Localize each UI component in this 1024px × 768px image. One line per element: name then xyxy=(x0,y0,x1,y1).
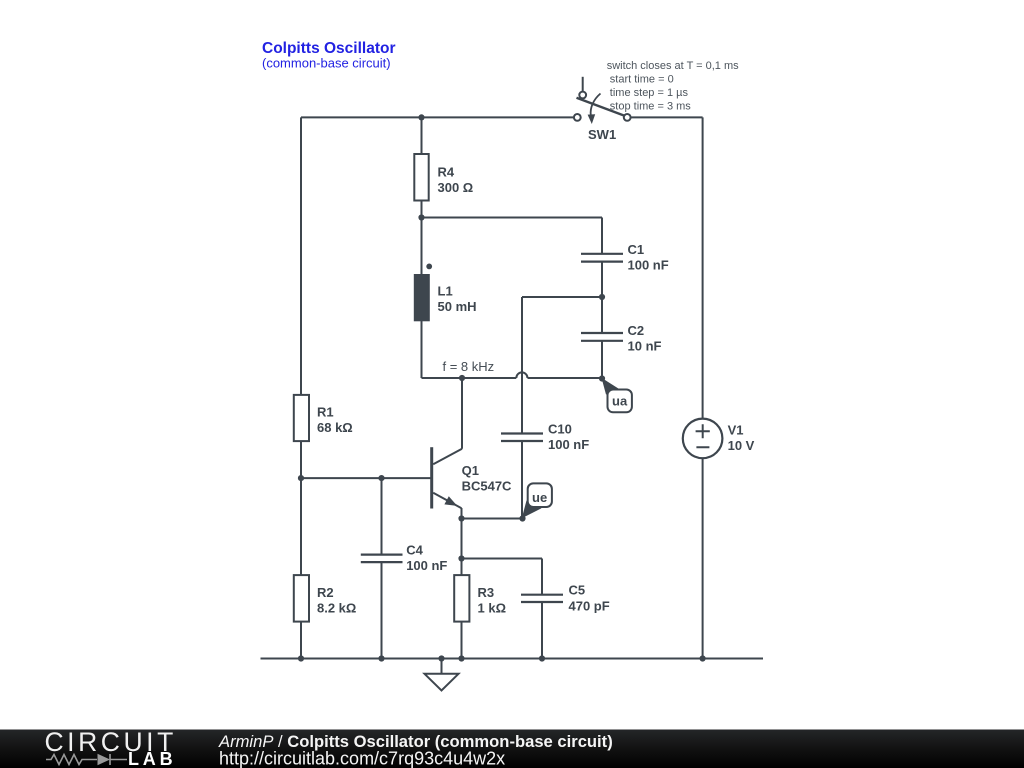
node ue flag xyxy=(522,483,552,518)
svg-text:LAB: LAB xyxy=(128,749,176,768)
junction ground rail R2 xyxy=(298,655,304,661)
junction ground rail C4 xyxy=(378,655,384,661)
svg-text:(common-base circuit): (common-base circuit) xyxy=(262,56,391,71)
svg-text:C2: C2 xyxy=(628,323,645,338)
svg-text:time step = 1 µs: time step = 1 µs xyxy=(610,87,689,99)
svg-text:C10: C10 xyxy=(548,421,572,436)
inductor L1 xyxy=(414,264,477,322)
voltage source V1 xyxy=(683,419,755,459)
capacitor C5 xyxy=(521,595,563,602)
junction R4 / C1 row xyxy=(418,214,424,220)
wire hop arc xyxy=(516,372,527,378)
junction ground rail R3 xyxy=(458,655,464,661)
svg-text:Colpitts Oscillator: Colpitts Oscillator xyxy=(262,40,396,57)
wire top rail left xyxy=(301,116,574,118)
svg-text:R1: R1 xyxy=(317,404,334,419)
svg-text:C1: C1 xyxy=(628,242,645,257)
svg-text:ue: ue xyxy=(532,490,547,505)
wire C5 column xyxy=(541,559,543,659)
ground xyxy=(425,674,459,691)
svg-text:start time = 0: start time = 0 xyxy=(610,74,674,86)
junction base row left rail xyxy=(298,475,304,481)
svg-text:8.2 kΩ: 8.2 kΩ xyxy=(317,601,356,616)
wire emitter row xyxy=(462,518,523,520)
svg-text:ua: ua xyxy=(612,393,628,408)
wire top rail right xyxy=(631,116,703,118)
junction ground rail ground symbol xyxy=(438,655,444,661)
wire left rail xyxy=(300,117,302,658)
wire C10 column xyxy=(521,297,523,519)
annotation notes xyxy=(607,60,739,112)
resistor R3 xyxy=(454,575,506,622)
junction C1-C2 midpoint xyxy=(599,294,605,300)
capacitor C2 xyxy=(581,333,623,341)
capacitor C10 xyxy=(501,434,543,442)
svg-text:470 pF: 470 pF xyxy=(569,598,610,613)
capacitor C4 xyxy=(361,555,403,563)
resistor R2 xyxy=(294,575,357,622)
svg-text:switch closes at T = 0,1 ms: switch closes at T = 0,1 ms xyxy=(607,60,739,72)
svg-text:R2: R2 xyxy=(317,585,334,600)
svg-text:C4: C4 xyxy=(406,543,423,558)
wire R3-C5 row xyxy=(462,558,543,560)
svg-text:50 mH: 50 mH xyxy=(438,299,477,314)
wire C2 stubs xyxy=(601,297,603,379)
svg-text:100 nF: 100 nF xyxy=(406,558,447,573)
footer bar xyxy=(0,730,1024,768)
wire ground stub xyxy=(441,659,443,675)
svg-text:f = 8 kHz: f = 8 kHz xyxy=(443,359,495,374)
svg-text:10 V: 10 V xyxy=(728,438,755,453)
svg-text:stop time = 3 ms: stop time = 3 ms xyxy=(610,100,692,112)
wire R3 column xyxy=(461,519,463,659)
wire C1-C2 midpoint row xyxy=(522,296,602,298)
wire C1 top stub xyxy=(601,218,603,254)
switch SW1 xyxy=(574,77,631,142)
wire collector stub xyxy=(461,378,463,449)
resistor R1 xyxy=(294,395,353,441)
junction emitter xyxy=(458,515,464,521)
svg-text:100 nF: 100 nF xyxy=(548,437,589,452)
junction top rail / R4 xyxy=(418,114,424,120)
wire R4-L1 column xyxy=(421,117,423,378)
junction R3 / C5 row xyxy=(458,555,464,561)
junction ground rail V1 xyxy=(700,655,706,661)
svg-text:68 kΩ: 68 kΩ xyxy=(317,420,353,435)
junction base row C4 xyxy=(378,475,384,481)
svg-text:Q1: Q1 xyxy=(462,463,479,478)
transistor Q1 xyxy=(432,447,512,508)
junction collector row xyxy=(459,375,465,381)
wire C4 column xyxy=(381,478,383,658)
svg-text:1 kΩ: 1 kΩ xyxy=(478,601,507,616)
wire emitter stub xyxy=(461,508,463,519)
node ua flag xyxy=(602,378,632,413)
svg-text:V1: V1 xyxy=(728,422,744,437)
wire node B row xyxy=(422,217,603,219)
svg-text:R3: R3 xyxy=(478,585,495,600)
title xyxy=(262,40,396,71)
svg-text:R4: R4 xyxy=(438,164,455,179)
svg-text:C5: C5 xyxy=(569,583,586,598)
svg-text:L1: L1 xyxy=(438,283,453,298)
wire right rail xyxy=(702,117,704,658)
svg-text:SW1: SW1 xyxy=(588,127,616,142)
svg-text:100 nF: 100 nF xyxy=(628,257,669,272)
svg-text:10 nF: 10 nF xyxy=(628,339,662,354)
wire C1 bottom stub xyxy=(601,262,603,297)
resistor R4 xyxy=(414,154,473,201)
junction node ue xyxy=(519,515,525,521)
junction ground rail C5 xyxy=(539,655,545,661)
footer logo resistor-diode glyph xyxy=(46,754,127,765)
svg-text:300 Ω: 300 Ω xyxy=(438,180,474,195)
wire ground rail xyxy=(261,658,764,660)
wire base row xyxy=(301,477,431,479)
wire collector row with hop xyxy=(422,377,603,379)
svg-text:BC547C: BC547C xyxy=(462,479,512,494)
junction node ua xyxy=(599,375,605,381)
svg-text:http://circuitlab.com/c7rq93c4: http://circuitlab.com/c7rq93c4u4w2x xyxy=(219,749,505,768)
capacitor C1 xyxy=(581,254,623,262)
